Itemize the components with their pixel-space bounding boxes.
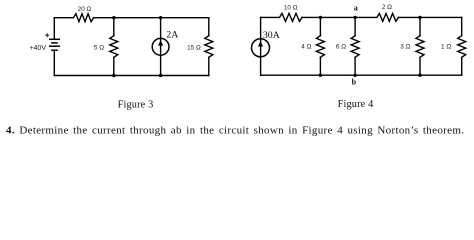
resistor R 1ohm [458, 36, 466, 58]
resistor R 4ohm [316, 36, 324, 58]
svg-text:30A: 30A [263, 30, 280, 41]
wire fig3 bottom [54, 75, 209, 77]
wire 15ohm branch stubs [208, 18, 210, 76]
wire 5ohm branch stubs [113, 18, 115, 76]
svg-text:Figure 4: Figure 4 [338, 99, 374, 110]
battery plus sign [45, 33, 49, 37]
node junction dots fig3 [112, 16, 422, 78]
wire 1ohm branch stubs [461, 17, 463, 75]
svg-text:Figure 3: Figure 3 [118, 100, 154, 111]
svg-text:2 Ω: 2 Ω [382, 4, 392, 11]
wire 6ohm branch (a-b) stubs [354, 17, 356, 75]
battery V1 40V plates [49, 39, 60, 50]
wire 30A branch stubs [260, 17, 262, 75]
node junction dots fig4 [319, 16, 322, 19]
resistor R 6ohm [351, 36, 359, 58]
svg-text:5 Ω: 5 Ω [94, 45, 104, 52]
svg-text:a: a [354, 4, 358, 13]
resistor R 10ohm fig4 [280, 13, 303, 21]
wire battery branch bottom [53, 50, 55, 75]
svg-text:+40V: +40V [29, 45, 46, 52]
resistor R 15ohm [205, 36, 213, 58]
wire 3ohm branch stubs [419, 17, 421, 75]
svg-text:2A: 2A [166, 30, 178, 41]
svg-text:3 Ω: 3 Ω [400, 44, 410, 51]
arrow of 2A source [158, 40, 163, 45]
svg-text:10 Ω: 10 Ω [284, 5, 298, 12]
svg-text:6 Ω: 6 Ω [336, 44, 346, 51]
current source I2 30A circle [252, 39, 270, 57]
resistor R 3ohm [416, 36, 424, 58]
wire 2A branch stubs [160, 18, 162, 76]
resistor R 5ohm [110, 36, 118, 58]
wire fig3 top [54, 17, 209, 19]
svg-text:15 Ω: 15 Ω [187, 45, 201, 52]
resistor R 2ohm fig4 [377, 13, 399, 21]
svg-text:1 Ω: 1 Ω [441, 44, 451, 51]
wire battery branch top [53, 18, 55, 40]
wire 4ohm branch stubs [319, 17, 321, 75]
wire fig4 bottom [261, 74, 462, 76]
svg-text:4. Determine the current throu: 4. Determine the current through ab in t… [6, 125, 464, 137]
svg-text:4 Ω: 4 Ω [301, 44, 311, 51]
arrow of 30A source [258, 41, 263, 46]
wire fig4 top [261, 16, 462, 18]
resistor R 20ohm fig3 [73, 14, 93, 22]
current source I1 2A circle [152, 38, 169, 55]
svg-text:b: b [352, 77, 357, 86]
svg-text:20 Ω: 20 Ω [78, 6, 92, 13]
